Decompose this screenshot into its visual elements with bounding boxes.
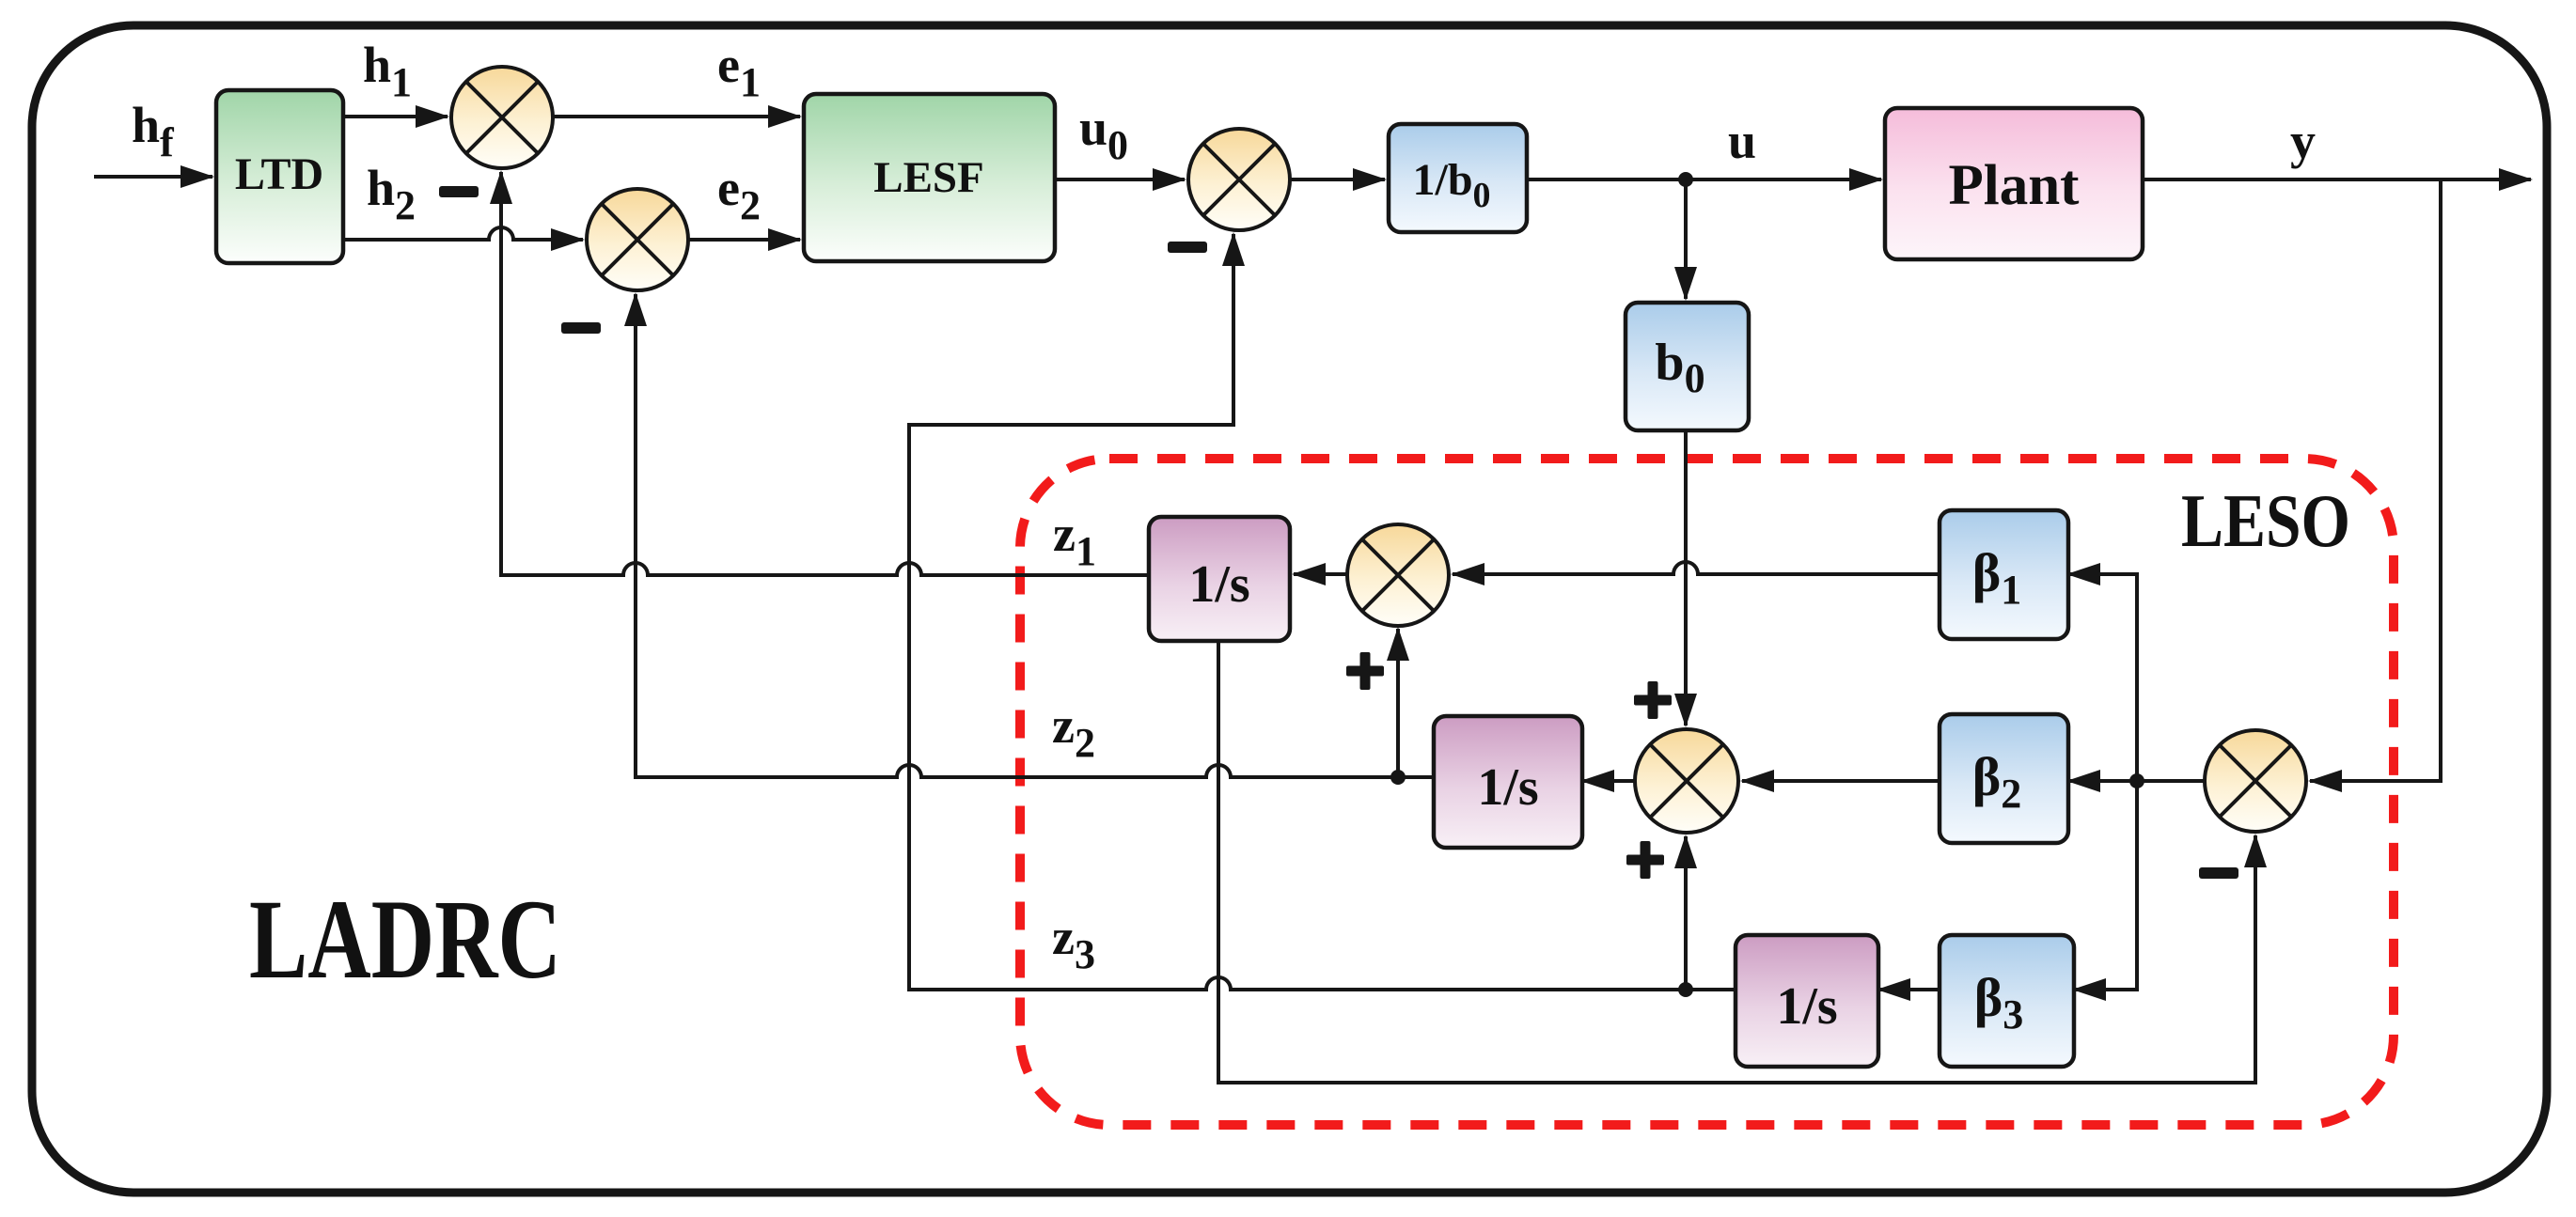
svg-text:y: y — [2290, 113, 2316, 169]
svg-text:u0: u0 — [1079, 100, 1128, 168]
svg-text:1/s: 1/s — [1477, 758, 1538, 817]
svg-text:z1: z1 — [1053, 506, 1096, 574]
svg-text:LESF: LESF — [873, 153, 984, 202]
svg-text:LADRC: LADRC — [249, 877, 561, 1003]
svg-text:Plant: Plant — [1949, 154, 2081, 217]
svg-text:1/s: 1/s — [1188, 555, 1249, 614]
svg-text:LESO: LESO — [2181, 478, 2350, 563]
svg-text:h1: h1 — [363, 37, 412, 105]
svg-text:h2: h2 — [367, 160, 416, 228]
svg-text:z3: z3 — [1052, 909, 1095, 977]
svg-text:e2: e2 — [717, 160, 761, 228]
svg-text:LTD: LTD — [235, 149, 323, 199]
svg-text:z2: z2 — [1052, 697, 1095, 766]
svg-text:hf: hf — [132, 97, 175, 165]
svg-text:1/s: 1/s — [1776, 977, 1837, 1036]
svg-text:e1: e1 — [717, 37, 761, 105]
svg-text:u: u — [1728, 113, 1756, 169]
